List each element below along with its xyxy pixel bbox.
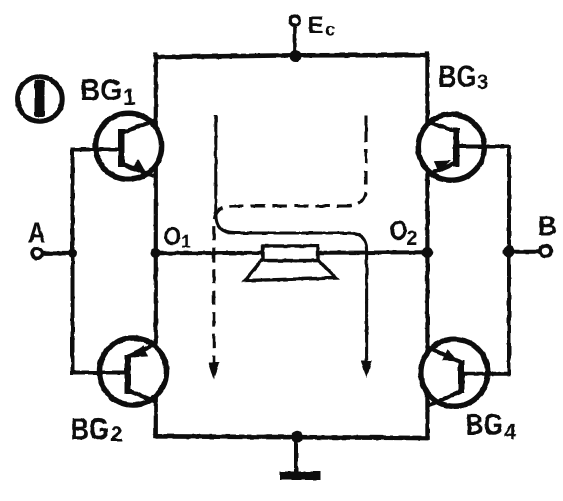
svg-text:3: 3 xyxy=(477,72,488,94)
svg-text:BG: BG xyxy=(438,59,477,94)
svg-text:4: 4 xyxy=(504,420,517,445)
svg-text:BG: BG xyxy=(466,409,504,442)
svg-text:E: E xyxy=(308,12,324,39)
svg-text:1: 1 xyxy=(123,84,136,110)
svg-text:O: O xyxy=(164,221,182,251)
svg-text:2: 2 xyxy=(407,228,418,250)
svg-text:O: O xyxy=(390,215,408,246)
svg-text:2: 2 xyxy=(111,421,123,446)
svg-text:BG: BG xyxy=(80,74,122,107)
svg-text:A: A xyxy=(28,218,46,250)
svg-text:c: c xyxy=(325,20,335,40)
svg-text:B: B xyxy=(538,211,558,241)
svg-text:1: 1 xyxy=(181,231,191,252)
svg-text:BG: BG xyxy=(71,412,110,447)
